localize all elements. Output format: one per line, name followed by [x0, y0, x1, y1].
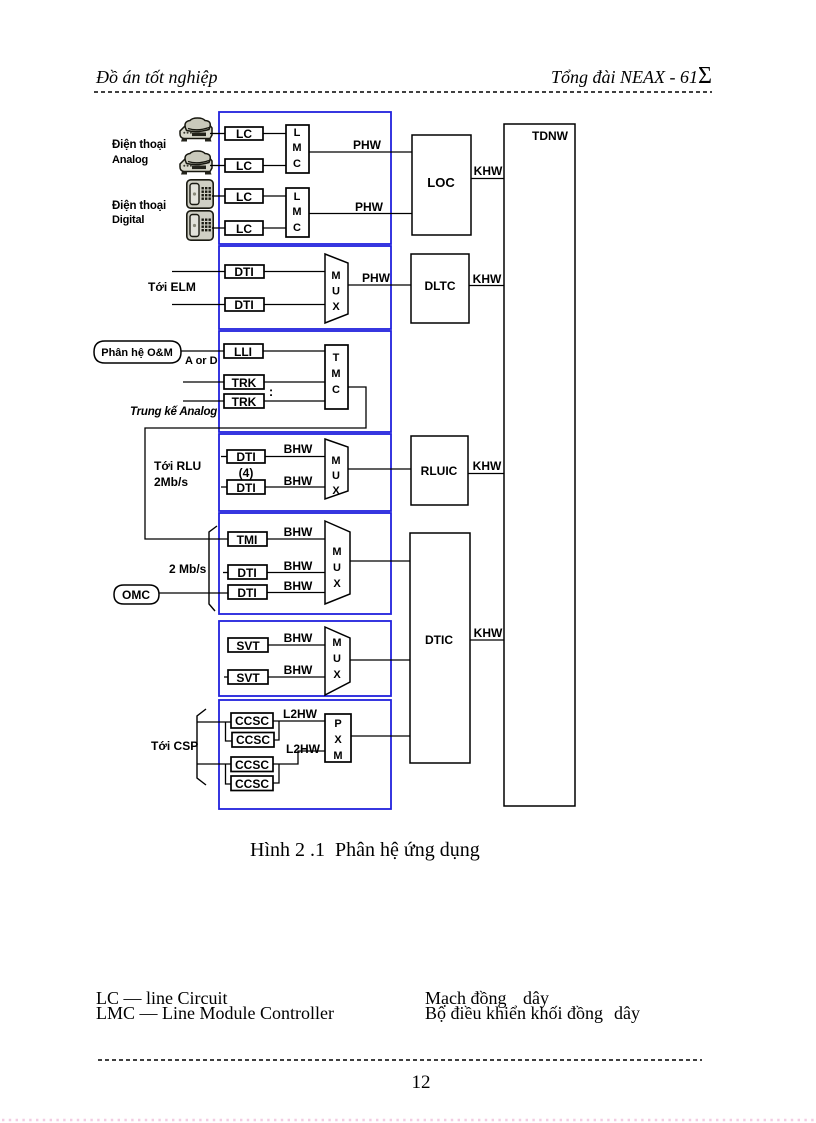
wire PHW1 LMC1-LOC — [309, 151, 412, 153]
svg-text:MUX: MUX — [331, 270, 340, 313]
svg-text:CCSC: CCSC — [235, 714, 269, 728]
svg-text:DTI: DTI — [236, 450, 255, 464]
block TRK2 — [224, 394, 264, 409]
svg-text:TMI: TMI — [237, 533, 258, 547]
svg-text:(4): (4) — [239, 466, 254, 480]
svg-text:L2HW: L2HW — [286, 742, 321, 756]
block CCSC3 — [231, 757, 273, 772]
svg-text:CCSC: CCSC — [235, 777, 269, 791]
wire MUX6-DTIC — [350, 659, 410, 661]
digital phone icon 1 — [187, 180, 213, 208]
wire DTI1-MUX4 — [265, 456, 325, 458]
svg-text:BHW: BHW — [284, 631, 313, 645]
wire DTI1-MUX5 — [267, 572, 325, 574]
svg-text:LLI: LLI — [234, 345, 252, 359]
wire TRK2-TMC — [264, 400, 325, 402]
wire stub SVT2 — [224, 676, 228, 678]
svg-text:KHW: KHW — [473, 459, 502, 473]
svg-text:Điện thoại: Điện thoại — [112, 200, 166, 212]
svg-text::: : — [269, 384, 273, 399]
wire CCSC4 join — [273, 764, 279, 783]
svg-text:Điện thoại: Điện thoại — [112, 139, 166, 151]
block DTIC — [410, 533, 470, 763]
svg-text:TRK: TRK — [232, 395, 257, 409]
svg-text:Đồ án tốt nghiệp: Đồ án tốt nghiệp — [95, 67, 218, 87]
header dashed rule — [94, 91, 712, 93]
wire CCSC2 join — [274, 721, 279, 740]
svg-text:12: 12 — [412, 1072, 431, 1093]
block TDNW — [504, 124, 575, 806]
wire PHW2 LMC2-LOC — [309, 213, 412, 215]
svg-text:Trung kế Analog: Trung kế Analog — [130, 406, 217, 418]
wire LC3-LMC2 — [263, 195, 286, 197]
wire DTI1-MUX2 — [264, 271, 325, 273]
svg-text:LMC: LMC — [292, 191, 301, 234]
block LOC — [412, 135, 471, 235]
section box S1 (LC/LMC) — [219, 112, 391, 244]
wire stub DTI1 s5 — [223, 572, 228, 574]
svg-text:RLUIC: RLUIC — [421, 464, 458, 478]
svg-text:LC: LC — [236, 127, 252, 141]
block LC1 — [225, 127, 263, 141]
mux MUX6 — [325, 627, 350, 695]
analog phone icon 2 — [180, 151, 212, 175]
svg-text:DTIC: DTIC — [425, 633, 453, 647]
block LLI — [224, 344, 263, 359]
block PXM — [325, 714, 351, 762]
wire SVT1-MUX6 — [268, 644, 325, 646]
block LMC1 — [286, 125, 309, 173]
block SVT2 — [228, 670, 268, 685]
svg-text:BHW: BHW — [284, 663, 313, 677]
wire LOC-TDNW — [471, 178, 504, 180]
svg-text:L2HW: L2HW — [283, 707, 318, 721]
svg-text:PHW: PHW — [353, 138, 382, 152]
bracket 2Mbs group — [209, 526, 217, 611]
bottom pink dotted strip — [2, 1119, 816, 1121]
wire SVT2-MUX6 — [268, 676, 325, 678]
block DLTC — [411, 254, 469, 323]
block DTI1 s4 — [227, 450, 265, 464]
section box S3 (TRK TMC) — [219, 331, 391, 432]
svg-text:KHW: KHW — [474, 626, 503, 640]
block LC3 — [225, 189, 263, 204]
wire LLI-TMC — [263, 350, 325, 352]
wire DTIC-TDNW — [470, 639, 504, 641]
svg-text:LC: LC — [236, 222, 252, 236]
svg-text:2Mb/s: 2Mb/s — [154, 475, 188, 489]
svg-text:Analog: Analog — [112, 154, 148, 166]
wire DTI2-MUX5 — [267, 592, 325, 594]
svg-text:Bộ điều khiển khối đồng: Bộ điều khiển khối đồng — [425, 1003, 603, 1023]
svg-text:2 Mb/s: 2 Mb/s — [169, 562, 207, 576]
svg-text:Tới ELM: Tới ELM — [148, 280, 196, 294]
svg-text:Tổng đài NEAX - 61Σ: Tổng đài NEAX - 61Σ — [551, 63, 712, 89]
svg-text:LMC: LMC — [292, 127, 301, 170]
wire OMC-DTI2 — [159, 592, 228, 594]
svg-text:LOC: LOC — [427, 175, 455, 190]
wire O&M-LLI — [181, 350, 224, 352]
svg-text:CCSC: CCSC — [235, 758, 269, 772]
wire left-TRK2 — [183, 400, 224, 402]
analog phone icon 1 — [180, 118, 212, 142]
svg-text:DTI: DTI — [237, 566, 256, 580]
svg-text:BHW: BHW — [284, 579, 313, 593]
section box S7 (CCSC) — [219, 700, 391, 809]
section box S5 (TMI DTI) — [219, 513, 391, 614]
mux MUX5 — [325, 521, 350, 604]
block RLUIC — [411, 436, 468, 505]
block DTI2 s5 — [228, 585, 267, 600]
block TRK1 — [224, 375, 264, 390]
svg-text:BHW: BHW — [284, 559, 313, 573]
block TMI — [228, 532, 267, 547]
block DTI2 s2 — [225, 298, 264, 312]
svg-text:Digital: Digital — [112, 214, 144, 226]
wire LC1-LMC1 — [263, 133, 286, 135]
svg-text:BHW: BHW — [284, 525, 313, 539]
node Phan he O&M — [94, 341, 181, 363]
svg-text:DTI: DTI — [234, 265, 253, 279]
svg-text:BHW: BHW — [284, 442, 313, 456]
wire LC2-LMC1 — [263, 165, 286, 167]
block LC2 — [225, 159, 263, 173]
svg-text:MUX: MUX — [331, 455, 340, 497]
node OMC — [114, 585, 159, 604]
wire phone2-LC2 — [210, 165, 225, 167]
wire LC4-LMC2 — [263, 227, 286, 229]
wire DTI2-MUX4 — [265, 486, 325, 488]
svg-text:SVT: SVT — [236, 671, 260, 685]
svg-text:TMC: TMC — [331, 352, 340, 396]
svg-text:DTI: DTI — [237, 586, 256, 600]
wire DTI2-MUX2 — [264, 304, 325, 306]
section box S6 (SVT) — [219, 621, 391, 696]
digital phone icon 2 — [187, 211, 213, 240]
svg-text:KHW: KHW — [473, 272, 502, 286]
block CCSC4 — [231, 776, 273, 791]
svg-text:PHW: PHW — [362, 271, 391, 285]
footer dashed rule — [98, 1059, 702, 1061]
wire CCSC1-PXM — [273, 720, 325, 722]
block DTI1 s2 — [225, 265, 264, 279]
svg-text:DLTC: DLTC — [424, 279, 455, 293]
svg-text:PXM: PXM — [333, 718, 342, 762]
wire phone3-LC3 — [212, 195, 225, 197]
wire phone1-LC1 — [210, 133, 225, 135]
section box S4 (DTI RLU) — [219, 434, 391, 511]
wire stub DTI1 s4 — [221, 456, 227, 458]
block CCSC1 — [231, 713, 273, 728]
svg-text:Tới RLU: Tới RLU — [154, 459, 201, 473]
block LMC2 — [286, 188, 309, 237]
block DTI1 s5 — [228, 565, 267, 580]
svg-text:SVT: SVT — [236, 639, 260, 653]
wire MUX2-DLTC — [348, 284, 411, 286]
wire TRK1-TMC — [264, 381, 325, 383]
block SVT1 — [228, 638, 268, 653]
svg-text:Phân hệ O&M: Phân hệ O&M — [101, 347, 173, 359]
wire TMC-TMI route — [145, 387, 366, 539]
wire CCSC3-PXM — [273, 751, 325, 764]
svg-text:BHW: BHW — [284, 474, 313, 488]
svg-text:PHW: PHW — [355, 200, 384, 214]
block TMC — [325, 345, 348, 409]
wire left-TRK1 — [183, 381, 224, 383]
wire bracket-CCSC3 — [197, 764, 231, 784]
section box S2 (DTI mux) — [219, 246, 391, 329]
mux MUX2 — [325, 254, 348, 323]
svg-text:Tới CSP: Tới CSP — [151, 739, 198, 753]
bracket Toi CSP group — [197, 709, 206, 785]
wire RLUIC-TDNW — [468, 473, 504, 475]
mux MUX4 — [325, 439, 348, 499]
wire bracket-CCSC1 — [197, 722, 232, 741]
svg-text:Hình 2 .1 Phân hệ ứng dụng: Hình 2 .1 Phân hệ ứng dụng — [250, 839, 480, 861]
wire stub DTI2 s4 — [221, 486, 227, 488]
svg-text:DTI: DTI — [234, 298, 253, 312]
svg-text:KHW: KHW — [474, 164, 503, 178]
svg-text:dây: dây — [614, 1003, 640, 1023]
wire phone4-LC4 — [212, 227, 225, 229]
wire TMI-MUX5 — [267, 538, 325, 540]
svg-text:LC: LC — [236, 159, 252, 173]
svg-text:LC: LC — [236, 190, 252, 204]
wire PXM-DTIC — [351, 735, 410, 737]
wire left-DTI1 — [172, 271, 225, 273]
wire MUX4-RLUIC — [348, 468, 411, 470]
wire MUX5-DTIC — [350, 560, 410, 562]
svg-text:MUX: MUX — [332, 637, 341, 681]
wire left-DTI2 — [172, 304, 225, 306]
svg-text:CCSC: CCSC — [236, 733, 270, 747]
block DTI2 s4 — [227, 480, 265, 495]
svg-text:A or D: A or D — [185, 355, 218, 367]
block CCSC2 — [232, 733, 274, 748]
svg-text:DTI: DTI — [236, 481, 255, 495]
block LC4 — [225, 221, 263, 236]
svg-text:TDNW: TDNW — [532, 129, 569, 143]
svg-text:OMC: OMC — [122, 588, 150, 602]
wire DLTC-TDNW — [469, 285, 504, 287]
svg-text:LMC — Line Module Controller: LMC — Line Module Controller — [96, 1003, 334, 1023]
svg-text:TRK: TRK — [232, 376, 257, 390]
svg-text:MUX: MUX — [332, 546, 341, 590]
